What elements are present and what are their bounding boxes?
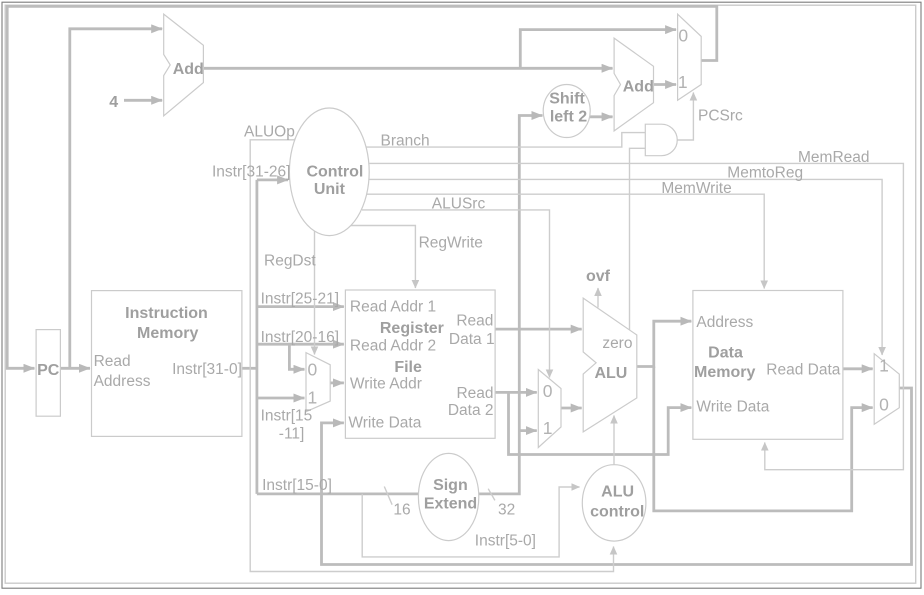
svg-text:Memory: Memory [137,325,198,342]
instruction memory box [92,291,242,437]
ALU [583,298,637,432]
svg-text:ovf: ovf [586,268,611,285]
svg-text:Instr[20-16]: Instr[20-16] [261,329,339,346]
wire ALU result down to final mux 0 [654,367,873,511]
svg-text:MemRead: MemRead [798,149,870,166]
data memory box [693,291,843,440]
top mux (PCSrc) [678,14,702,100]
wire ALUSrc control to ALU mux select [362,210,550,378]
svg-text:Extend: Extend [424,496,477,513]
svg-text:0: 0 [543,381,553,401]
svg-text:Control: Control [306,164,363,181]
wire regdst mux output to write addr [330,381,344,384]
wire zero output to AND gate [630,148,646,330]
svg-text:Read: Read [456,385,493,402]
wire sign extend output up to shift left 2 [479,116,543,494]
wire Branch control to AND gate [367,133,646,148]
svg-text:32: 32 [498,502,515,519]
wire read data 1 to ALU input [495,328,582,331]
wire Instr[31-0] from instruction memory to bus [242,367,257,370]
svg-text:PCSrc: PCSrc [698,108,743,125]
svg-text:RegDst: RegDst [264,253,316,270]
ALUSrc mux [538,370,561,448]
svg-text:Write Addr: Write Addr [350,376,422,393]
svg-text:Data 1: Data 1 [449,331,495,348]
wire Instr[20-16] to read addr 2 [257,343,344,346]
svg-text:MemtoReg: MemtoReg [727,165,803,182]
wire final mux output loop back to register write data [322,388,912,565]
svg-text:Add: Add [173,61,204,78]
svg-text:1: 1 [308,388,318,408]
svg-text:Read Addr 2: Read Addr 2 [350,338,436,355]
control unit ellipse [289,108,369,236]
svg-text:Instruction: Instruction [125,305,208,322]
wire MemWrite control to data memory [367,194,765,288]
final mux (MemtoReg) [874,354,899,425]
wire shift left 2 output to Add2 bottom input [590,115,613,118]
svg-text:4: 4 [109,94,118,111]
wire MemRead control to data memory [369,163,903,469]
wire ALU result to data memory address [637,321,692,366]
svg-text:Data: Data [708,345,743,362]
svg-text:1: 1 [678,72,688,92]
svg-text:Address: Address [696,314,753,331]
svg-text:Memory: Memory [694,364,755,381]
bus width slash 32 [488,489,495,501]
wire sign extend branch to ALU mux 1 [519,429,537,432]
wire ovf output arrow [597,288,599,308]
adder Add2 (branch target) [614,38,653,131]
svg-text:Register: Register [380,320,444,337]
wire AND gate PCSrc to top mux select [678,93,694,141]
svg-text:ALU: ALU [601,484,634,501]
adder Add (PC+4) [164,14,204,116]
wire RegDst control to regdst mux select [314,231,316,354]
svg-text:Data 2: Data 2 [448,402,494,419]
wire ALU mux output to ALU input [561,407,582,410]
wire Instr[15-0] to sign extend [257,492,419,495]
wire constant 4 into Add [124,99,162,102]
svg-text:0: 0 [308,360,318,380]
svg-text:1: 1 [543,418,553,438]
svg-text:Read Data: Read Data [766,362,840,379]
svg-text:Instr[25-21]: Instr[25-21] [261,291,339,308]
wire read data 2 branch to data memory write data [509,392,692,454]
wire Instr[5-0] to ALU control [362,487,579,557]
svg-text:Read: Read [456,313,493,330]
svg-text:Sign: Sign [433,477,468,494]
svg-text:Write Data: Write Data [348,415,421,432]
svg-text:Write Data: Write Data [696,399,769,416]
PC register [36,330,60,417]
svg-text:0: 0 [879,395,889,415]
svg-text:Read: Read [94,353,131,370]
sign extend ellipse [418,453,478,540]
svg-text:0: 0 [678,26,688,46]
shift left 2 ellipse [543,85,590,138]
svg-text:ALU: ALU [594,365,627,382]
AND gate [645,124,677,156]
svg-text:MemWrite: MemWrite [661,180,731,197]
svg-text:Instr[5-0]: Instr[5-0] [475,533,536,550]
svg-text:Branch: Branch [381,133,430,150]
svg-text:Read Addr 1: Read Addr 1 [350,299,436,316]
svg-text:left 2: left 2 [550,109,587,126]
svg-text:Instr[31-0]: Instr[31-0] [172,361,242,378]
svg-text:Instr[15-0]: Instr[15-0] [262,477,332,494]
wire RegWrite control to register file [351,226,416,289]
wire Add output (PC+4) to Add2 top input [203,67,612,70]
svg-text:File: File [394,359,422,376]
register file box [345,290,495,438]
wire Instr[31-26] into control unit [257,178,288,181]
bus width slash 16 [384,487,392,505]
wire Instr[20-16] branch to regdst mux 0 [289,344,304,369]
instruction bus vertical [255,180,258,494]
svg-text:ALUSrc: ALUSrc [432,196,486,213]
svg-text:Shift: Shift [549,91,585,108]
wire Add2 output to top mux 1 [654,83,677,86]
wire ALUOp control to ALU control [250,135,613,572]
wire PC+4 branch to top mux 0 [520,30,676,69]
svg-text:1: 1 [879,356,889,376]
wire MemtoReg control to final mux select [369,179,882,355]
svg-text:control: control [590,504,644,521]
svg-text:Instr[15: Instr[15 [261,408,313,425]
regdst mux [306,353,330,412]
ALU control ellipse [582,465,646,541]
svg-text:RegWrite: RegWrite [419,235,483,252]
svg-text:ALUOp: ALUOp [244,124,295,141]
svg-text:PC: PC [37,362,60,379]
wire PC to instruction memory read address [60,367,90,370]
wire ALU control output to ALU [613,416,615,465]
svg-text:Unit: Unit [314,181,346,198]
svg-text:16: 16 [393,502,410,519]
wire read data 2 to ALU mux 0 [495,391,537,394]
svg-text:Instr[31-26]: Instr[31-26] [212,164,290,181]
svg-text:Address: Address [94,373,151,390]
svg-text:Add: Add [623,79,654,96]
svg-text:-11]: -11] [279,426,305,443]
wire Instr[15-11] to regdst mux 1 [257,397,305,400]
wire PC branch up to Add [70,29,162,369]
svg-text:zero: zero [602,335,632,352]
wire data memory read data to final mux 1 [843,367,873,370]
wire mux output wrap-around to PC input [7,6,717,368]
wire Instr[25-21] to read addr 1 [257,305,344,308]
